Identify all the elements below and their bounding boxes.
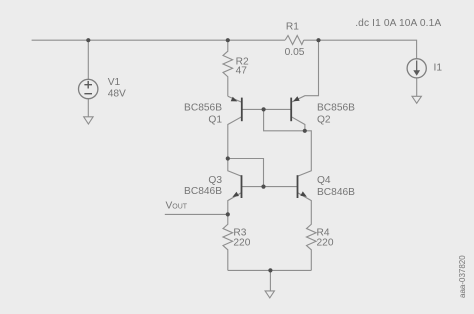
svg-text:.dc I1 0A 10A 0.1A: .dc I1 0A 10A 0.1A (355, 18, 441, 29)
svg-text:Q2: Q2 (317, 115, 331, 126)
svg-text:47: 47 (236, 66, 248, 77)
svg-text:Q1: Q1 (208, 115, 222, 126)
svg-text:48V: 48V (108, 88, 126, 99)
svg-text:I1: I1 (434, 62, 443, 73)
svg-text:R1: R1 (286, 21, 299, 32)
svg-text:BC856B: BC856B (317, 103, 355, 114)
svg-text:BC856B: BC856B (184, 103, 222, 114)
svg-text:BC846B: BC846B (184, 186, 222, 197)
svg-text:0.05: 0.05 (285, 47, 305, 58)
svg-text:220: 220 (317, 237, 334, 248)
svg-text:aaa-037820: aaa-037820 (458, 255, 467, 298)
svg-text:Q4: Q4 (317, 175, 331, 186)
svg-text:Q3: Q3 (208, 175, 222, 186)
svg-text:V1: V1 (108, 77, 121, 88)
svg-text:220: 220 (233, 237, 250, 248)
svg-text:BC846B: BC846B (317, 187, 355, 198)
